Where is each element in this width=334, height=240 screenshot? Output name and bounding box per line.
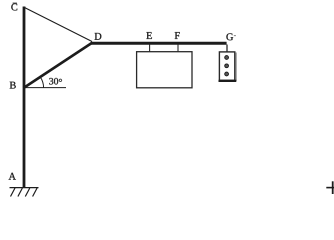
traffic light right shade xyxy=(235,53,237,81)
lamp 2 xyxy=(225,64,229,68)
hanger at G xyxy=(226,45,228,53)
ground hatch 4 xyxy=(33,188,38,197)
ground line at A xyxy=(10,187,39,189)
ground hatch 3 xyxy=(25,188,30,197)
traffic light bottom edge xyxy=(219,80,237,82)
angle reference line at B xyxy=(24,87,66,89)
tie rod C-D xyxy=(25,8,93,42)
label 30 degrees xyxy=(49,78,62,85)
ground hatch 1 xyxy=(11,188,16,197)
label G xyxy=(226,33,233,40)
suspended box E-F xyxy=(137,52,192,88)
crosshair mark bottom right xyxy=(326,187,334,189)
traffic light body at G xyxy=(219,52,234,80)
beam D-G xyxy=(91,42,227,45)
tick after G xyxy=(234,35,236,37)
label C xyxy=(11,4,17,11)
serif bar above C xyxy=(13,2,17,4)
label E xyxy=(146,32,151,39)
label B xyxy=(10,82,16,89)
label F xyxy=(175,32,180,39)
label D xyxy=(95,33,102,40)
hanger at F xyxy=(177,45,179,53)
label A xyxy=(9,173,16,180)
angle arc 30 degrees xyxy=(40,77,43,88)
column post A-B-C xyxy=(23,7,26,188)
lamp 1 xyxy=(225,56,229,60)
lamp 3 xyxy=(225,72,229,76)
ground hatch 2 xyxy=(18,188,23,197)
hanger at E xyxy=(149,45,151,53)
brace B-D xyxy=(24,43,93,89)
